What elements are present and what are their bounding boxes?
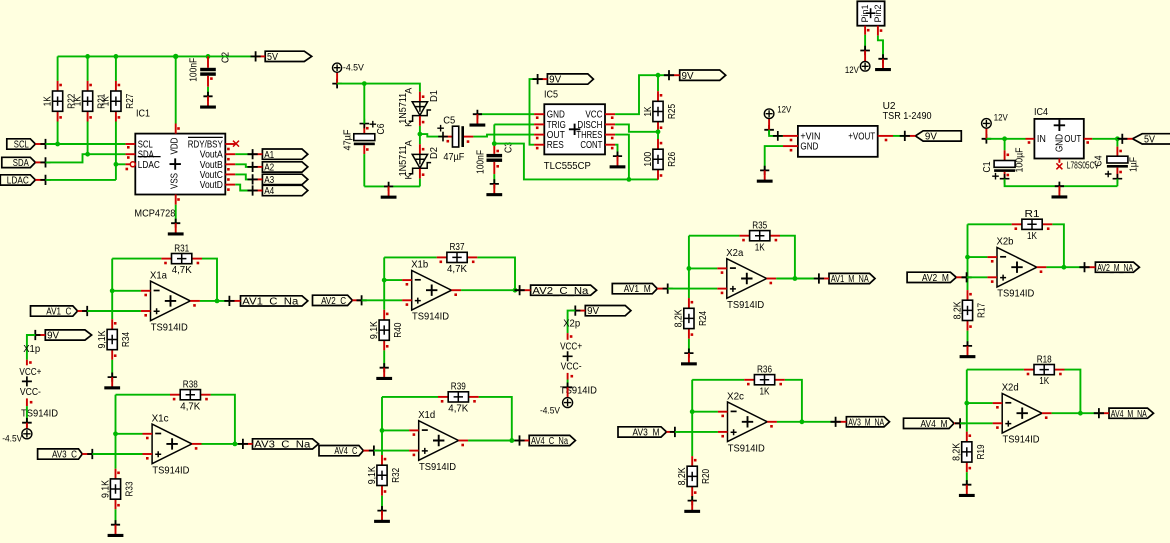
wire R27 top drop	[115, 56, 117, 81]
wire RES to 9V	[530, 79, 538, 145]
wire R25 drop	[657, 75, 659, 91]
svg-text:AV2_M: AV2_M	[922, 273, 949, 284]
svg-text:12V: 12V	[777, 105, 792, 116]
diode D2 1N5711	[398, 139, 440, 179]
wire VDD drop	[175, 56, 177, 123]
junction X2a inverting input	[687, 266, 692, 271]
pin IC5 DISCH	[605, 123, 615, 125]
junction X1b inverting input	[382, 278, 387, 283]
wire X1c non-inverting input	[92, 453, 142, 455]
resistor R19	[952, 432, 987, 473]
wire 5V top rail	[58, 55, 256, 57]
supply 12V at connector	[860, 46, 870, 71]
net flag 5V	[1117, 134, 1170, 146]
wire X2c output	[777, 421, 836, 423]
svg-text:AV1_C_Na: AV1_C_Na	[242, 297, 299, 308]
svg-text:-4.5V: -4.5V	[540, 406, 561, 417]
ground below C2	[200, 92, 216, 109]
wire C1 to bottom rail	[1005, 179, 1118, 187]
junction X2b inverting input	[965, 255, 970, 260]
pin IC5 VCC	[605, 113, 615, 115]
svg-text:AV1_C: AV1_C	[46, 307, 71, 318]
junction C4 top	[1115, 136, 1120, 141]
wire R22 top drop	[57, 56, 59, 81]
ground below R19	[959, 480, 975, 497]
net flag AV4_M_NA	[1094, 408, 1154, 420]
svg-text:8,2K: 8,2K	[952, 443, 963, 461]
origin cross +VIN net	[773, 131, 783, 141]
wire U2 GND to ground	[765, 146, 783, 170]
svg-text:IC1: IC1	[136, 107, 150, 119]
IC IC1 MCP4728	[134, 107, 225, 219]
wire R27 bottom to LDAC net	[115, 122, 117, 180]
net flag SCL	[7, 139, 51, 151]
wire X2d non-inverting input	[960, 422, 993, 424]
wire X2c gain resistor to ground	[691, 497, 693, 501]
svg-text:AV2_M_NA: AV2_M_NA	[1097, 263, 1133, 274]
resistor R34	[97, 319, 132, 360]
svg-text:TLC555CP: TLC555CP	[544, 160, 591, 172]
net flag AV2_C_Na	[515, 285, 597, 297]
net flag LDAC	[0, 175, 50, 187]
pin IC5 GND	[534, 113, 544, 115]
wire X2c inverting input	[692, 411, 718, 413]
svg-text:R17: R17	[977, 303, 988, 318]
wire X2c feedback left vertical	[691, 380, 693, 456]
wire X2b gain resistor to ground	[967, 331, 969, 346]
svg-text:X1c: X1c	[152, 413, 169, 424]
svg-text:TS914ID: TS914ID	[151, 322, 188, 333]
op-amp X2d TS914ID	[993, 383, 1052, 446]
resistor R1	[1012, 209, 1053, 242]
wire 12V to IC4 IN	[986, 138, 1025, 140]
svg-text:5V: 5V	[267, 52, 278, 63]
wire X2d feedback top	[967, 369, 1024, 371]
net flag AV4_C	[319, 446, 379, 458]
svg-text:X1d: X1d	[418, 410, 435, 421]
op-amp X1b TS914ID	[402, 260, 461, 323]
svg-text:-4.5V: -4.5V	[343, 63, 365, 74]
svg-text:4,7K: 4,7K	[180, 401, 200, 412]
wire X2d gain resistor to ground	[966, 472, 968, 485]
resistor R17	[952, 290, 987, 331]
wire C3 to ground	[493, 174, 495, 184]
net flag A4	[248, 185, 308, 197]
ground left of IC5	[470, 110, 486, 127]
svg-text:VCC+: VCC+	[560, 341, 582, 352]
wire X1d feedback left vertical	[381, 397, 383, 455]
svg-text:100nF: 100nF	[189, 58, 200, 82]
svg-text:R19: R19	[976, 444, 987, 459]
svg-text:VCC-: VCC-	[20, 387, 41, 398]
svg-text:9,1K: 9,1K	[100, 480, 111, 498]
op-amp X2c TS914ID	[718, 391, 777, 454]
net flag 9V	[30, 330, 91, 342]
wire CONT to ground	[615, 145, 617, 156]
IC IC4 L78S05CV	[1034, 106, 1099, 172]
wire X1b gain resistor to ground	[383, 350, 385, 367]
svg-text:1K: 1K	[1039, 376, 1049, 387]
net flag AV1_M_NA	[814, 273, 875, 285]
net flag AV1_C_Na	[224, 296, 307, 308]
svg-text:1N5711: 1N5711	[398, 92, 409, 123]
pin connector Pin2	[877, 26, 879, 36]
ground below CONT	[610, 152, 626, 169]
pin IC5 CONT	[605, 144, 615, 146]
pin IC1 VDD	[175, 124, 177, 134]
resistor R25	[643, 91, 678, 132]
svg-text:AV3_C_Na: AV3_C_Na	[254, 440, 311, 451]
svg-text:1K: 1K	[72, 96, 83, 106]
junction X2c output-feedback	[800, 419, 805, 424]
svg-text:47µF: 47µF	[443, 152, 464, 163]
svg-text:R1: R1	[1025, 209, 1040, 220]
wire X2p 9V to VCC+	[568, 311, 576, 334]
junction C3 node	[492, 141, 497, 146]
svg-text:Pin2: Pin2	[873, 5, 884, 23]
wire -4.5V rail	[337, 84, 420, 92]
svg-text:TS914ID: TS914ID	[152, 465, 189, 476]
ground below C3	[486, 179, 502, 196]
svg-text:C1: C1	[982, 161, 993, 172]
svg-text:AV3_M_NA: AV3_M_NA	[848, 417, 884, 428]
wire X1c inverting input	[116, 433, 143, 435]
wire LDAC net	[46, 179, 116, 181]
svg-text:IC4: IC4	[1034, 106, 1048, 118]
resistor R35	[739, 220, 780, 253]
wire X1c feedback top	[116, 394, 171, 396]
pin IC4 GND with no-connect X	[1058, 159, 1060, 163]
svg-text:IC5: IC5	[544, 89, 558, 101]
wire X2a feedback left vertical	[688, 236, 690, 298]
ground below R17	[960, 341, 976, 358]
svg-text:TS914ID: TS914ID	[412, 312, 449, 323]
net flag AV2_C	[313, 295, 367, 307]
svg-text:AV4_M: AV4_M	[921, 419, 948, 430]
wire C3 node to bottom rail	[494, 144, 658, 180]
pin IC1 VoutB	[225, 163, 235, 165]
pin U2 +VIN	[783, 135, 798, 137]
net flag AV4_M	[904, 418, 966, 430]
supply -4.5V X2p	[563, 383, 573, 408]
svg-text:TS914ID: TS914ID	[419, 462, 456, 473]
junction X1b output-feedback	[513, 288, 518, 293]
wire X2b non-inverting input	[967, 276, 988, 278]
svg-text:CONT: CONT	[580, 140, 602, 151]
pin IC1 VSS	[175, 195, 177, 205]
svg-text:100µF: 100µF	[1015, 148, 1026, 173]
svg-text:SDA: SDA	[13, 158, 29, 169]
resistor R40	[369, 310, 404, 351]
capacitor C1 100uF polarized	[982, 139, 1025, 184]
resistor R27	[101, 81, 136, 122]
svg-text:R18: R18	[1037, 354, 1052, 365]
svg-text:X1p: X1p	[23, 344, 40, 355]
wire X2d feedback left vertical	[966, 370, 968, 432]
wire X1b output	[461, 289, 519, 291]
capacitor C5 47uF polarized	[420, 115, 474, 163]
pin IC1 RDY/BSY with no-connect X	[225, 143, 235, 145]
pin IC1 VoutD	[225, 184, 235, 186]
supply -4.5V left	[332, 63, 342, 88]
op-amp X2a TS914ID	[717, 248, 776, 311]
svg-text:TS914ID: TS914ID	[728, 443, 765, 454]
ground below R24	[681, 349, 697, 366]
svg-text:A1: A1	[264, 150, 274, 161]
pin U2 +VOUT	[878, 135, 893, 137]
wire X2a feedback top	[689, 235, 740, 237]
svg-text:AV3_C: AV3_C	[52, 450, 77, 461]
pin IC5 RES	[534, 144, 544, 146]
svg-text:9V: 9V	[549, 75, 561, 86]
ground below R34	[104, 373, 120, 390]
junction X1d inverting input	[380, 428, 385, 433]
svg-text:9V: 9V	[925, 132, 937, 143]
wire X2b output	[1046, 266, 1084, 268]
op-amp power X2p TS914ID	[560, 319, 597, 397]
wire X2a gain resistor to ground	[688, 339, 690, 353]
wire X1a feedback left vertical	[111, 259, 113, 320]
wire X1a output	[200, 300, 230, 302]
svg-text:LDAC: LDAC	[138, 160, 160, 171]
pin IC4 IN	[1026, 138, 1035, 140]
wire R22 bottom to SCL net	[57, 122, 59, 145]
pin IC1 SDA	[125, 153, 135, 155]
net flag AV1_M	[612, 284, 673, 296]
junction diode node	[418, 132, 423, 137]
wire X1c feedback left vertical	[115, 395, 117, 469]
junction X2d output-feedback	[1078, 411, 1083, 416]
op-amp X1c TS914ID	[143, 413, 202, 476]
svg-text:RES: RES	[547, 140, 564, 151]
wire THRES down to rail	[615, 135, 629, 180]
svg-text:AV4_M_NA: AV4_M_NA	[1111, 409, 1147, 420]
wire X1d output	[468, 440, 519, 442]
svg-text:C2: C2	[221, 52, 232, 63]
svg-text:D1: D1	[429, 90, 440, 102]
svg-text:X2c: X2c	[727, 391, 744, 402]
supply 12V at U2	[764, 109, 774, 135]
svg-text:R32: R32	[391, 467, 402, 482]
wire R25-R26 link	[657, 132, 659, 139]
ground below R40	[376, 363, 392, 380]
wire VoutD to A4	[235, 185, 252, 191]
wire X1b inverting input	[384, 279, 402, 281]
op-amp X1a TS914ID	[141, 270, 200, 333]
junction X1c output-feedback	[233, 442, 238, 447]
junction R27-rail	[114, 54, 119, 59]
svg-text:X2a: X2a	[726, 248, 743, 259]
svg-text:R31: R31	[174, 243, 189, 254]
junction R25 top	[656, 73, 661, 78]
svg-text:4,7K: 4,7K	[448, 404, 468, 415]
wire X1a non-inverting input	[87, 310, 141, 312]
svg-text:VCC+: VCC+	[19, 367, 41, 378]
resistor R31	[161, 243, 202, 276]
junction X1a output-feedback	[215, 299, 220, 304]
resistor R26	[643, 139, 678, 180]
svg-text:R25: R25	[667, 104, 678, 119]
wire X1b feedback left vertical	[383, 257, 385, 309]
resistor R18	[1024, 354, 1065, 387]
wire X2d output	[1052, 412, 1099, 414]
pin connector Pin1	[864, 26, 866, 35]
resistor R22	[42, 81, 77, 122]
resistor R32	[367, 455, 402, 496]
wire LDAC branch to pin	[116, 163, 126, 165]
svg-text:D2: D2	[429, 147, 440, 159]
wire C5 to 555 OUT	[473, 135, 534, 137]
resistor R33	[100, 469, 135, 510]
net flag A1	[248, 149, 308, 161]
svg-text:1K: 1K	[101, 96, 112, 106]
op-amp X1d TS914ID	[409, 410, 468, 473]
svg-text:LDAC: LDAC	[7, 176, 29, 187]
pin IC1 SCL	[125, 143, 135, 145]
capacitor C2	[189, 52, 232, 87]
svg-text:Pin1: Pin1	[860, 5, 871, 23]
svg-text:OUT: OUT	[1064, 134, 1081, 145]
pin IC5 THRES	[605, 134, 615, 136]
wire X1a inverting input	[112, 290, 141, 292]
ground below R33	[108, 520, 124, 537]
wire D2 cathode to gnd rail	[419, 179, 421, 187]
ground below R32	[374, 506, 390, 523]
wire TRIG vertical	[493, 124, 495, 143]
svg-text:AV3_M: AV3_M	[633, 428, 660, 439]
svg-text:X2d: X2d	[1002, 383, 1019, 394]
wire C6 top to rail	[363, 84, 365, 124]
IC IC5 TLC555CP	[544, 89, 605, 172]
wire X1d feedback top	[382, 396, 438, 398]
svg-text:R37: R37	[450, 242, 465, 253]
svg-text:R24: R24	[698, 311, 709, 326]
svg-text:R33: R33	[125, 481, 136, 496]
svg-text:4,7K: 4,7K	[447, 264, 467, 275]
pin IC1 VoutC	[225, 173, 235, 175]
capacitor C3 100nF	[475, 142, 514, 174]
resistor R38	[170, 379, 211, 412]
wire VSS to ground	[175, 205, 177, 224]
junction THRES-rail	[627, 177, 632, 182]
wire X1d inverting input	[382, 429, 409, 431]
svg-text:AV4_C_Na: AV4_C_Na	[531, 436, 568, 447]
svg-text:4,7K: 4,7K	[172, 265, 192, 276]
ground below R20	[684, 496, 700, 513]
junction X2b output-feedback	[1062, 265, 1067, 270]
svg-text:TS914ID: TS914ID	[1003, 435, 1040, 446]
svg-text:C6: C6	[376, 123, 387, 134]
supply 12V at IC4	[982, 119, 992, 144]
junction R21-rail	[85, 54, 90, 59]
svg-text:AV2_C: AV2_C	[321, 296, 346, 307]
wire C6 bottom to gnd rail	[363, 154, 365, 186]
net flag A3	[248, 174, 308, 186]
svg-text:TS914ID: TS914ID	[997, 289, 1034, 300]
svg-text:R38: R38	[183, 379, 198, 390]
wire GND pin to ground	[477, 113, 534, 115]
ground below IC4	[1052, 182, 1068, 199]
svg-text:A4: A4	[264, 186, 274, 197]
svg-text:TSR 1-2490: TSR 1-2490	[883, 110, 932, 122]
svg-text:X2p: X2p	[563, 319, 580, 330]
svg-text:SCL: SCL	[14, 140, 29, 151]
net flag 9V	[570, 306, 631, 318]
svg-text:1K: 1K	[755, 242, 765, 253]
junction X2d inverting input	[964, 401, 969, 406]
wire VCC up to 9V	[615, 75, 669, 114]
ground below U2	[757, 166, 773, 183]
svg-text:8,2K: 8,2K	[952, 301, 963, 319]
wire X1a gain resistor to ground	[111, 360, 113, 377]
net flag AV2_M	[907, 272, 972, 284]
wire X2b feedback top	[968, 223, 1012, 225]
svg-text:100nF: 100nF	[475, 150, 486, 174]
svg-text:R35: R35	[752, 220, 767, 231]
wire X2c feedback top	[692, 379, 744, 381]
svg-text:9,1K: 9,1K	[369, 321, 380, 339]
svg-text:GND: GND	[1055, 134, 1066, 152]
junction X1d output-feedback	[509, 438, 514, 443]
pin IC4 OUT	[1084, 138, 1093, 140]
wire X1c gain resistor to ground	[115, 509, 117, 524]
svg-text:1K: 1K	[760, 386, 770, 397]
wire VoutB to A2	[235, 164, 252, 167]
wire X2a output	[776, 278, 819, 280]
wire +VOUT to 9V flag	[893, 135, 905, 137]
svg-text:VCC-: VCC-	[561, 362, 582, 373]
wire VoutA to A1	[235, 153, 252, 155]
supply -4.5V X1p	[22, 418, 32, 439]
net flag AV2_M_NA	[1079, 262, 1139, 274]
svg-text:R20: R20	[701, 469, 712, 484]
svg-text:R36: R36	[757, 364, 772, 375]
ground below Pin2	[875, 54, 891, 71]
junction DISCH node	[656, 129, 661, 134]
junction X1c inverting input	[113, 431, 118, 436]
net flag AV1_C	[31, 306, 93, 318]
resistor R37	[437, 242, 478, 275]
pin IC1 LDAC inverted	[125, 163, 130, 165]
net flag A2	[248, 162, 308, 174]
svg-text:1K: 1K	[1027, 231, 1037, 242]
IC U2 TSR 1-2490	[798, 100, 932, 157]
junction C1 top	[1002, 136, 1007, 141]
wire bottom gnd rail	[364, 185, 420, 187]
resistor R20	[677, 456, 712, 497]
svg-text:100: 100	[643, 151, 654, 166]
wire D1 cathode to node	[419, 126, 421, 134]
pin IC1 VoutA	[225, 153, 235, 155]
junction X1a inverting input	[110, 288, 115, 293]
op-amp X2b TS914ID	[987, 237, 1046, 300]
svg-text:IN: IN	[1037, 134, 1046, 145]
svg-text:A: A	[404, 139, 414, 146]
wire VoutC to A3	[235, 174, 252, 179]
svg-text:1N5711: 1N5711	[398, 145, 409, 176]
wire C2 bottom	[207, 87, 209, 97]
wire Pin1 to 12V	[864, 35, 866, 51]
svg-text:A: A	[404, 87, 414, 94]
wire X2b inverting input	[968, 256, 988, 258]
svg-text:R27: R27	[125, 93, 136, 108]
wire SDA net	[46, 154, 126, 162]
wire X1d gain resistor to ground	[381, 496, 383, 511]
svg-text:AV2_C_Na: AV2_C_Na	[532, 286, 589, 297]
svg-text:X2b: X2b	[997, 237, 1014, 248]
junction LDAC branch	[114, 162, 119, 167]
svg-text:1K: 1K	[643, 106, 654, 116]
